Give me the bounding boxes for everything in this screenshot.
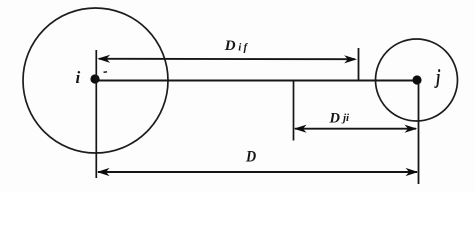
svg-text:j: j xyxy=(434,65,441,88)
svg-text:i f: i f xyxy=(238,41,248,53)
svg-text:i: i xyxy=(76,68,81,87)
svg-text:D: D xyxy=(245,149,256,166)
svg-text:D: D xyxy=(224,38,236,54)
svg-text:D: D xyxy=(329,110,341,126)
svg-text:ji: ji xyxy=(341,112,350,124)
